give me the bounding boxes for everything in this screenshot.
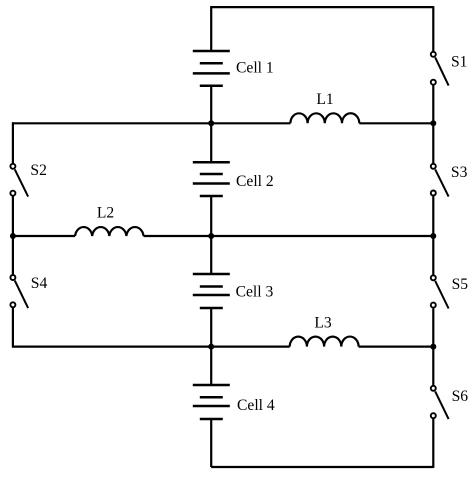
junction node B (center, bus 2) — [208, 233, 214, 239]
battery Cell 3 — [193, 274, 230, 308]
wire center column: Cell 2 bottom to node B — [210, 196, 212, 236]
switch S4 — [10, 275, 28, 308]
inductor L3 — [290, 337, 359, 347]
junction node (right rail, bus 3) — [430, 344, 436, 350]
wire right rail: top bus corner to S1 — [432, 6, 434, 51]
wire bottom bus (Cell 4 bottom to S6 bottom) — [211, 466, 433, 468]
wire horizontal bus 2 right segment (L2 to right rail) — [144, 235, 434, 237]
wire left rail: S4 to bus3 corner — [12, 308, 14, 348]
inductor L1 — [290, 113, 359, 123]
battery Cell 2 — [193, 162, 230, 196]
wire horizontal bus 3 right segment (L3 to right rail) — [359, 346, 434, 348]
svg-text:S6: S6 — [452, 388, 469, 405]
wire center column: Cell 1 bottom to node A — [210, 86, 212, 124]
svg-text:L1: L1 — [316, 91, 333, 108]
switch S5 — [431, 275, 449, 308]
wire right rail: S1 to bus1 node — [432, 86, 434, 124]
wire top bus (Cell 1 top to S1 top) — [211, 6, 433, 8]
switch S3 — [431, 164, 449, 197]
wire right rail: bus3 node to S6 — [432, 347, 434, 385]
svg-text:S1: S1 — [451, 54, 467, 71]
svg-text:S2: S2 — [30, 162, 46, 179]
wire horizontal bus 1 right segment (L1 to right rail) — [359, 122, 433, 124]
wire center column: Cell 1 top stub — [210, 6, 212, 51]
wire right rail: bus1 node to S3 — [432, 123, 434, 163]
wire center column: Cell 3 bottom to node C — [210, 308, 212, 347]
svg-text:Cell 2: Cell 2 — [236, 173, 274, 190]
switch S2 — [10, 164, 28, 197]
wire center column: Cell 4 bottom stub — [210, 419, 212, 467]
wire horizontal bus 3 left segment (left rail to L3) — [13, 346, 290, 348]
svg-text:Cell 3: Cell 3 — [236, 284, 274, 301]
wire horizontal bus 2 left stub (left rail to L2) — [13, 235, 75, 237]
svg-text:Cell 4: Cell 4 — [237, 397, 275, 414]
wire left rail: bus1 corner to S2 — [12, 122, 14, 163]
battery Cell 1 — [193, 51, 230, 86]
inductor L2 — [75, 227, 143, 236]
wire horizontal bus 1 left segment (left rail to L1) — [13, 122, 291, 124]
junction node (right rail, bus 1) — [430, 120, 436, 126]
wire left rail: S2 to bus2 node — [12, 197, 14, 237]
junction node A (center, bus 1) — [208, 120, 214, 126]
battery Cell 4 — [193, 385, 230, 419]
junction node (right rail, bus 2) — [430, 233, 436, 239]
svg-text:L2: L2 — [97, 205, 114, 222]
wire center column: node C to Cell 4 top — [210, 347, 212, 385]
svg-text:Cell 1: Cell 1 — [236, 60, 274, 77]
svg-text:L3: L3 — [314, 315, 332, 332]
wire right rail: S5 to bus3 node — [432, 308, 434, 346]
wire left rail: bus2 node to S4 — [12, 236, 14, 274]
svg-text:S3: S3 — [451, 164, 468, 181]
wire center column: node B to Cell 3 top — [210, 236, 212, 274]
switch S6 — [431, 386, 449, 419]
wire right rail: bus2 node to S5 — [432, 236, 434, 275]
junction node C (center, bus 3) — [208, 344, 214, 350]
wire right rail: S6 to bottom bus corner — [432, 419, 434, 468]
junction node (left rail, bus 2) — [10, 233, 16, 239]
wire center column: node A to Cell 2 top — [210, 123, 212, 162]
wire right rail: S3 to bus2 node — [432, 196, 434, 236]
svg-text:S4: S4 — [31, 275, 48, 292]
switch S1 — [431, 52, 449, 86]
svg-text:S5: S5 — [452, 276, 469, 293]
